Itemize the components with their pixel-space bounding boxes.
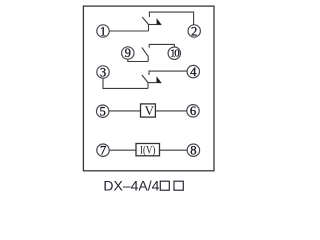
svg-text:10: 10 <box>170 49 179 60</box>
svg-text:2: 2 <box>191 24 197 38</box>
contact K3 moving blade <box>142 75 148 88</box>
wire terminal9 leg <box>128 59 148 61</box>
terminal circle 10 <box>168 47 180 59</box>
svg-text:9: 9 <box>125 46 131 60</box>
wire terminal7 to I(V) coil <box>109 149 136 151</box>
svg-text:1: 1 <box>100 24 106 38</box>
terminal circle 6 <box>187 105 199 117</box>
contact K1 actuation arrow line <box>149 24 162 26</box>
terminal circle 7 <box>97 144 109 156</box>
svg-text:8: 8 <box>190 144 196 158</box>
option square 2 <box>174 181 183 190</box>
terminal circle 9 <box>122 47 134 59</box>
svg-text:V: V <box>145 103 155 118</box>
terminal circle 5 <box>97 105 109 117</box>
svg-text:7: 7 <box>100 144 106 158</box>
contact K2 fixed contact and wire to terminal 10 <box>149 44 174 47</box>
terminal circle 2 <box>188 25 200 37</box>
terminal circle 4 <box>187 65 199 77</box>
terminal circle 1 <box>97 25 109 37</box>
svg-text:DX–4A/4: DX–4A/4 <box>103 178 159 194</box>
svg-text:3: 3 <box>100 65 106 79</box>
contact K3 fixed contact and wire to terminal 4 <box>149 71 187 75</box>
current coil I(V) box <box>136 144 160 156</box>
wire terminal5 to V coil <box>109 110 141 112</box>
terminal circle 8 <box>187 144 199 156</box>
svg-text:I(V): I(V) <box>140 144 156 156</box>
contact K3 actuation arrow line <box>148 82 161 84</box>
contact K1 fixed contact and wire to terminal 2 <box>149 12 193 25</box>
wire I(V) coil to terminal8 <box>160 149 188 151</box>
contact K2 moving blade <box>142 48 148 62</box>
svg-text:4: 4 <box>190 65 197 79</box>
svg-text:5: 5 <box>100 105 106 119</box>
contact K3 arrowhead <box>157 76 162 82</box>
wire V coil to terminal6 <box>155 110 186 112</box>
wire terminal3 leg <box>103 78 148 88</box>
svg-text:6: 6 <box>190 104 196 118</box>
terminal circle 3 <box>97 66 109 78</box>
option square 1 <box>160 181 169 190</box>
wire terminal1 to contact1 <box>109 30 148 32</box>
outer relay case box <box>83 6 214 171</box>
contact K1 arrowhead <box>157 18 162 24</box>
voltage coil V box <box>141 104 156 117</box>
contact K1 moving blade <box>142 17 148 31</box>
